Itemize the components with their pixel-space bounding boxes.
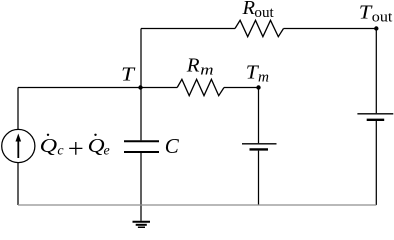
svg-text:out: out <box>372 9 393 25</box>
resistor Rout <box>235 20 284 36</box>
svg-text:C: C <box>165 134 180 158</box>
wire from node T down to capacitor <box>140 88 142 141</box>
resistor Rm <box>177 79 224 95</box>
wire from battery V1 to bottom rail <box>258 151 260 205</box>
label Rout <box>241 0 274 21</box>
label Qc + Qe <box>40 134 110 159</box>
battery V1 (Tm cell) <box>242 144 277 150</box>
svg-text:e: e <box>104 143 110 158</box>
wire top from Rout to Tout node <box>284 28 377 30</box>
wire top from riser to Rout <box>141 28 235 30</box>
svg-text:R: R <box>241 0 255 19</box>
ground <box>133 222 151 228</box>
capacitor C <box>124 141 159 152</box>
label Rm <box>186 55 214 79</box>
wire from Rm to Tm node <box>224 87 259 89</box>
wire from capacitor down to ground <box>140 153 142 221</box>
svg-text:out: out <box>254 5 274 21</box>
wire bottom rail <box>18 204 376 206</box>
battery V2 (Tout cell) <box>357 114 393 120</box>
label Tm <box>246 61 269 85</box>
wire riser from node T up <box>140 29 142 88</box>
svg-text:T: T <box>121 64 136 86</box>
svg-text:c: c <box>57 143 64 158</box>
svg-text:m: m <box>258 69 269 85</box>
current source I1 <box>2 129 35 162</box>
svg-text:R: R <box>186 55 200 77</box>
node Tm <box>256 85 260 89</box>
wire from Tout node down to battery <box>375 29 377 114</box>
node Tout <box>374 26 378 30</box>
wire from Tm node down to battery <box>258 88 260 144</box>
wire left rail upper <box>17 88 19 130</box>
node T <box>138 85 142 89</box>
label Tout <box>359 2 393 26</box>
svg-text:Q: Q <box>40 135 58 157</box>
svg-text:m: m <box>200 62 213 78</box>
wire from battery V2 to bottom rail <box>375 121 377 205</box>
wire mid-left from left rail to node T <box>18 87 177 89</box>
wire left rail lower <box>17 163 19 205</box>
